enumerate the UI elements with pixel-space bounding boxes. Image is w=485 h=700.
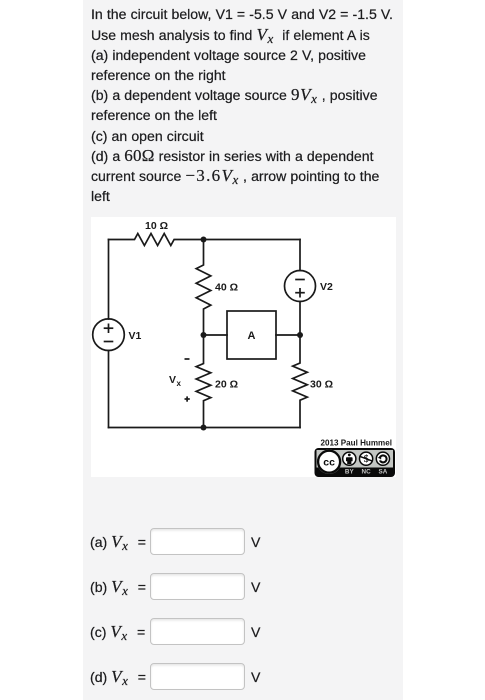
- svg-text:NC: NC: [362, 469, 372, 476]
- svg-text:cc: cc: [323, 457, 335, 469]
- svg-text:30 Ω: 30 Ω: [310, 379, 333, 391]
- svg-text:20 Ω: 20 Ω: [215, 379, 238, 391]
- svg-text:10 Ω: 10 Ω: [145, 220, 168, 232]
- svg-text:V: V: [169, 374, 176, 386]
- svg-text:SA: SA: [379, 469, 388, 476]
- svg-text:V1: V1: [129, 330, 142, 342]
- svg-text:x: x: [177, 379, 182, 388]
- svg-text:2013 Paul Hummel: 2013 Paul Hummel: [320, 439, 392, 448]
- svg-text:V2: V2: [320, 281, 333, 293]
- svg-text:A: A: [248, 330, 256, 342]
- svg-text:40 Ω: 40 Ω: [215, 282, 238, 294]
- svg-text:BY: BY: [345, 469, 355, 476]
